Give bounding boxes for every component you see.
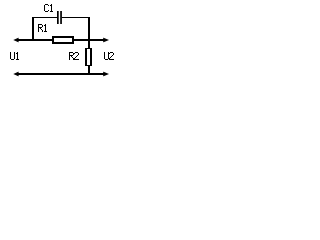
wire C1 branch right segment [62, 17, 90, 18]
resistor R1 [52, 36, 74, 44]
wire C1 branch left segment [32, 17, 57, 18]
terminal arrow bottom-left (U1 -) [13, 72, 18, 77]
label C1 [44, 4, 53, 12]
wire main top rail right segment [74, 39, 104, 41]
wire right vertical (node B riser) [88, 17, 90, 48]
label R2 [69, 52, 79, 60]
wire main top rail left segment [17, 39, 52, 41]
wire left vertical (node A riser) [32, 17, 34, 41]
label U1 [10, 52, 19, 60]
label R1 [38, 24, 47, 32]
capacitor C1 [57, 11, 62, 24]
resistor R2 [85, 48, 92, 66]
terminal arrow top-right (U2 +) [103, 38, 109, 43]
wire R2 bottom stub [88, 65, 90, 74]
terminal arrow top-left (U1 +) [13, 38, 18, 43]
label U2 [104, 52, 114, 60]
wire bottom rail [17, 73, 104, 75]
terminal arrow bottom-right (U2 -) [103, 72, 109, 77]
